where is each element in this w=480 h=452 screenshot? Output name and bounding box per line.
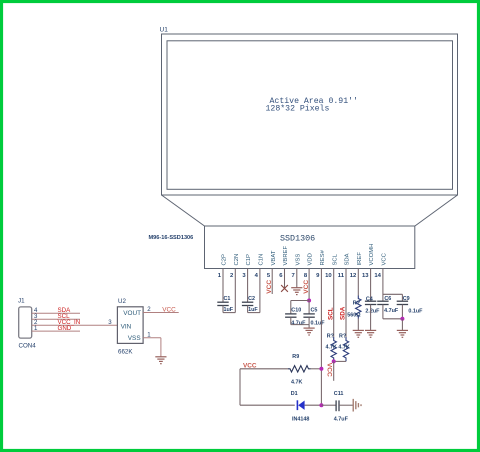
ground at C6/C9 [397,329,408,331]
svg-text:2: 2 [147,306,151,313]
svg-text:0.1uF: 0.1uF [408,308,423,314]
wire U1 pin 1 to C1 [222,269,224,303]
wire U1 pin 7 (VSS) to ground [296,269,298,288]
diode D1 [296,400,298,410]
capacitor C11 [335,400,337,411]
trapezoid left diagonal [162,195,205,226]
wire pin 14 branch to C9 [383,293,403,295]
wire IREF resistor to ground [357,319,359,331]
display outer rect [162,34,458,195]
svg-text:SSD1306: SSD1306 [280,234,315,244]
svg-text:VBREF: VBREF [283,245,289,265]
regulator U2 [117,307,143,344]
trapezoid right diagonal [415,195,458,226]
svg-text:SCL: SCL [327,307,334,320]
svg-text:12: 12 [350,273,357,279]
capacitor C6 [377,300,388,302]
svg-text:C1P: C1P [246,254,252,266]
svg-text:R?: R? [353,300,360,306]
wire C1 bottom to pin 2 [222,306,224,313]
wire J1 pin 2 (VCC_IN) [32,324,118,326]
junction node VDD [307,299,311,303]
svg-text:D1: D1 [291,391,298,397]
wire U1 pin 10 (SCL) down [333,269,335,338]
wire C10/C5 bottoms join [290,317,292,324]
svg-text:4.7K: 4.7K [338,345,349,351]
svg-text:C2P: C2P [222,254,228,266]
svg-text:2.2uF: 2.2uF [365,308,380,314]
svg-text:128*32 Pixels: 128*32 Pixels [266,103,330,113]
capacitor C2 [242,301,253,303]
svg-text:C1: C1 [224,296,231,302]
svg-text:11: 11 [338,273,345,279]
wire pullup bottoms join [334,360,346,362]
junction C6/C9 [400,317,404,321]
svg-text:VSS: VSS [295,254,301,266]
wire VDD node to C10 [291,300,309,302]
svg-text:4.7uF: 4.7uF [291,320,306,326]
capacitor C9 [397,300,408,302]
svg-text:560Ω: 560Ω [347,312,361,318]
svg-text:VSS: VSS [128,335,141,342]
svg-text:U1: U1 [160,27,169,34]
junction D1/C11/RES# [319,403,323,407]
svg-text:RES#: RES# [320,249,326,265]
svg-text:SCL: SCL [332,253,338,265]
svg-text:CON4: CON4 [19,343,37,350]
capacitor C5 [303,313,314,315]
svg-text:0.1uF: 0.1uF [311,320,326,326]
wire VCC to R9 [240,368,288,370]
svg-text:VCC: VCC [162,306,176,313]
svg-text:VCC: VCC [325,363,332,377]
wire U1 pin 8 (VDD) down [308,269,310,301]
svg-text:SDA: SDA [345,253,351,265]
svg-text:10: 10 [325,273,332,279]
svg-text:IN4148: IN4148 [292,417,309,423]
wire VDD node to C5 [308,301,310,314]
wire join to ground [308,325,310,328]
resistor R? pullup on SDA [343,337,348,361]
SSD1306 body rect [205,226,415,269]
wire J1 pin 3 (SCL) [32,318,80,320]
svg-text:4.7K: 4.7K [326,345,337,351]
svg-text:C6: C6 [384,296,391,302]
svg-text:R9: R9 [292,354,299,360]
svg-text:4.7K: 4.7K [291,379,302,385]
connector J1 [19,307,32,338]
ground at pin 7 [291,287,302,289]
wire C11 to ground [339,404,353,406]
wire C9 bottom to junction [401,305,403,319]
svg-text:662K: 662K [118,348,133,355]
ground under C5 [304,327,315,329]
resistor R? pullup on SCL [331,337,336,361]
svg-text:4.7uF: 4.7uF [384,308,399,314]
svg-text:VOUT: VOUT [123,310,141,317]
resistor R? 560 on IREF [356,296,361,319]
wire U1 pin 9 (RES#) long vertical [320,269,322,406]
wire R9 to RES# line [311,368,322,370]
svg-text:C10: C10 [291,308,301,314]
wire U1 pin 12 (IREF) down [357,269,359,296]
wire U1 pin 11 (SDA) down [345,269,347,338]
wire U2 VOUT to VCC [143,312,179,314]
wire U1 pin 6 (VBREF) stub [284,269,286,289]
svg-text:M96-16-SSD1306: M96-16-SSD1306 [149,235,194,241]
svg-text:C2: C2 [248,296,255,302]
svg-text:IREF: IREF [357,252,363,266]
svg-text:VIN: VIN [121,323,132,330]
wire C6 bottom to junction [382,305,384,319]
ground at IREF resistor [353,329,364,331]
svg-text:C4: C4 [366,296,373,302]
wire junction to C11 [321,404,335,406]
wire D1 to RES# junction [305,404,322,406]
svg-text:SDA: SDA [340,306,347,320]
capacitor C10 [285,313,296,315]
wire U1 pin 4 down [259,269,261,313]
svg-text:C11: C11 [334,391,344,397]
wire junction to ground [401,319,403,330]
svg-text:C1N: C1N [259,254,265,266]
display inner rect [167,41,453,190]
ground at C4 [365,329,376,331]
wire U1 pin 5 (VBAT) to VCC [271,269,273,295]
svg-text:VCC: VCC [266,280,273,294]
svg-text:J1: J1 [18,298,25,305]
junction R9/RES# [319,367,323,371]
svg-text:GND: GND [58,325,72,332]
wire U1 pin 14 (VCC) down [382,269,384,302]
svg-text:C9: C9 [403,296,410,302]
sideways ground at C11 [353,399,361,412]
wire U2 VSS to ground [143,337,161,339]
wire U1 pin 3 to C2 [247,269,249,303]
OLED display U1 [162,34,458,269]
capacitor C4 [365,300,376,302]
svg-text:VCC: VCC [303,280,310,294]
svg-text:VCC: VCC [382,252,388,265]
svg-text:C5: C5 [311,308,318,314]
capacitor C1 [217,301,228,303]
wire C4 to ground [370,305,372,331]
svg-text:R?: R? [327,333,334,339]
svg-text:VBAT: VBAT [271,250,277,265]
svg-text:U2: U2 [118,298,126,305]
ground at U2 VSS [155,356,166,358]
svg-text:VDD: VDD [308,253,314,265]
svg-text:VCOMH: VCOMH [369,244,375,266]
wire pullup node to VCC stub [333,361,335,380]
svg-text:C2N: C2N [234,254,240,266]
wire U1 pin 13 (VCOMH) down [370,269,372,302]
wire J1 pin 4 (SDA) [32,312,80,314]
svg-text:4.7uF: 4.7uF [334,417,349,423]
junction pullup VCC node [332,359,336,363]
wire U1 pin 2 down [234,269,236,313]
wire C2 bottom to pin 4 [247,306,249,313]
wire J1 pin 1 (GND) [32,330,80,332]
resistor R9 [288,366,311,372]
svg-text:13: 13 [362,273,369,279]
svg-text:R?: R? [339,333,346,339]
no-connect X on pin 6 [281,285,288,292]
svg-text:14: 14 [374,273,381,279]
wire VCC down-left leg [239,369,241,405]
